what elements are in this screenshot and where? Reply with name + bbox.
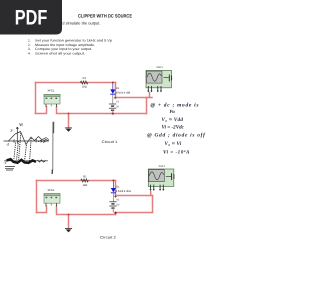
diode D1 (circuit 1)	[110, 83, 115, 104]
ground symbol circuit 1	[65, 128, 72, 132]
wire: XFG1 minus pin down	[57, 107, 147, 114]
svg-text:2V: 2V	[116, 203, 119, 206]
sketch dashed projection lines	[14, 133, 31, 161]
pin - c2	[56, 203, 58, 206]
pin common	[50, 104, 52, 106]
svg-text:Circuit 2: Circuit 2	[100, 235, 116, 239]
node junction dot top (R1/D1 node)	[112, 82, 114, 84]
oscilloscope XSC1 (circuit 2)	[148, 169, 174, 191]
wire: top horizontal c2	[37, 180, 116, 182]
svg-text:XSC1: XSC1	[159, 165, 166, 168]
wire: XFG1 minus pin down c2	[57, 206, 116, 214]
wire: output corner right of diode c2	[116, 181, 153, 196]
battery V1 (circuit 2)	[109, 195, 116, 212]
probe pins A	[147, 86, 149, 92]
svg-text:CLIPPER WITH DC SOURCE: CLIPPER WITH DC SOURCE	[78, 13, 133, 19]
svg-text:2V: 2V	[116, 106, 119, 109]
svg-text:1N4148: 1N4148	[115, 190, 132, 193]
ground symbol circuit 2	[65, 229, 72, 233]
svg-text:4.: 4.	[28, 51, 31, 55]
svg-text:V₀ ≈ Vdd: V₀ ≈ Vdd	[162, 117, 184, 123]
oscilloscope XSC1 (circuit 1)	[146, 70, 172, 92]
svg-text:@ Gdd ; diode is off: @ Gdd ; diode is off	[147, 133, 206, 139]
sketch h-axis top	[4, 140, 50, 142]
wire: left vertical c2	[36, 181, 38, 213]
svg-text:D1: D1	[116, 186, 120, 189]
diode D1 (circuit 2)	[111, 181, 116, 201]
page background	[0, 0, 216, 287]
sketch left small scribbles	[5, 167, 15, 171]
svg-text:V₀ ≈ Vi: V₀ ≈ Vi	[165, 141, 182, 147]
svg-text:XFG1: XFG1	[47, 189, 55, 192]
svg-text:Vi = -2Vdc: Vi = -2Vdc	[162, 125, 185, 131]
node junction dot ground c2	[68, 214, 70, 216]
pin common c2	[50, 203, 52, 206]
wire: battery jog to bottom-right run c2	[116, 213, 153, 215]
wire: vertical from output level to bottom net	[146, 98, 148, 114]
battery V1 (circuit 1)	[109, 97, 116, 114]
svg-text:XFG1: XFG1	[47, 90, 55, 93]
node junction dot bottom (V1 minus node)	[112, 112, 114, 114]
pin -	[56, 104, 58, 107]
node junction dot ground	[68, 113, 70, 115]
svg-text:@ + dc ; mode is: @ + dc ; mode is	[151, 103, 200, 109]
node junction dot top c2	[112, 180, 114, 182]
PDF badge	[0, 0, 62, 35]
svg-text:PDF: PDF	[15, 6, 48, 30]
probe pins B c2	[159, 185, 161, 191]
function generator XFG1 (circuit 2)	[44, 194, 60, 207]
svg-text:Pa: Pa	[170, 109, 176, 115]
svg-text:-2: -2	[6, 142, 9, 146]
svg-text:Vi = -10⁴A: Vi = -10⁴A	[163, 149, 190, 155]
pin +	[45, 104, 47, 107]
svg-text:R1: R1	[83, 176, 87, 179]
svg-text:XSC1: XSC1	[156, 66, 163, 69]
function generator XFG1 (circuit 1)	[44, 94, 60, 107]
sketch input waveform	[8, 132, 42, 145]
probe pins B	[157, 86, 159, 92]
wire: ground drop c2	[68, 215, 70, 229]
ext trig connector c2	[166, 175, 171, 177]
sketch vertical rule line	[52, 122, 54, 133]
node junction dot bottom c2	[114, 212, 116, 214]
svg-text:1N4148: 1N4148	[115, 91, 132, 94]
svg-text:1kΩ: 1kΩ	[82, 86, 87, 89]
sketch clipped output waveform (thick)	[7, 159, 37, 163]
svg-text:-2: -2	[4, 160, 7, 164]
wire: scope probe A stub	[149, 93, 151, 98]
svg-text:D1: D1	[116, 87, 120, 90]
svg-text:Circuit 1: Circuit 1	[102, 140, 118, 144]
resistor R1 (circuit 1)	[80, 81, 88, 84]
svg-text:Screen shot all your output.: Screen shot all your output.	[35, 51, 85, 55]
wire: left vertical	[35, 83, 37, 114]
svg-text:R1: R1	[83, 77, 87, 80]
sketch h-axis bottom	[4, 160, 48, 162]
wire: output corner right of diode	[116, 83, 153, 98]
svg-text:1kΩ: 1kΩ	[82, 184, 87, 187]
wire: bottom-left jog c2	[37, 206, 47, 212]
probe pins A c2	[150, 185, 152, 191]
resistor R1 (circuit 2)	[81, 179, 89, 182]
wire: vertical right (output level to bottom net) c2	[152, 196, 154, 213]
wire: ground drop	[68, 114, 70, 128]
wire: bottom-left jog to XFG1 plus pin	[36, 107, 47, 114]
pin + c2	[45, 203, 47, 206]
ext trig connector	[164, 77, 169, 79]
sketch v-axis	[16, 127, 18, 144]
wire: top horizontal (node from XFG1 + to diode branch)	[36, 82, 116, 84]
wire: scope probe A stub c2	[150, 192, 152, 196]
